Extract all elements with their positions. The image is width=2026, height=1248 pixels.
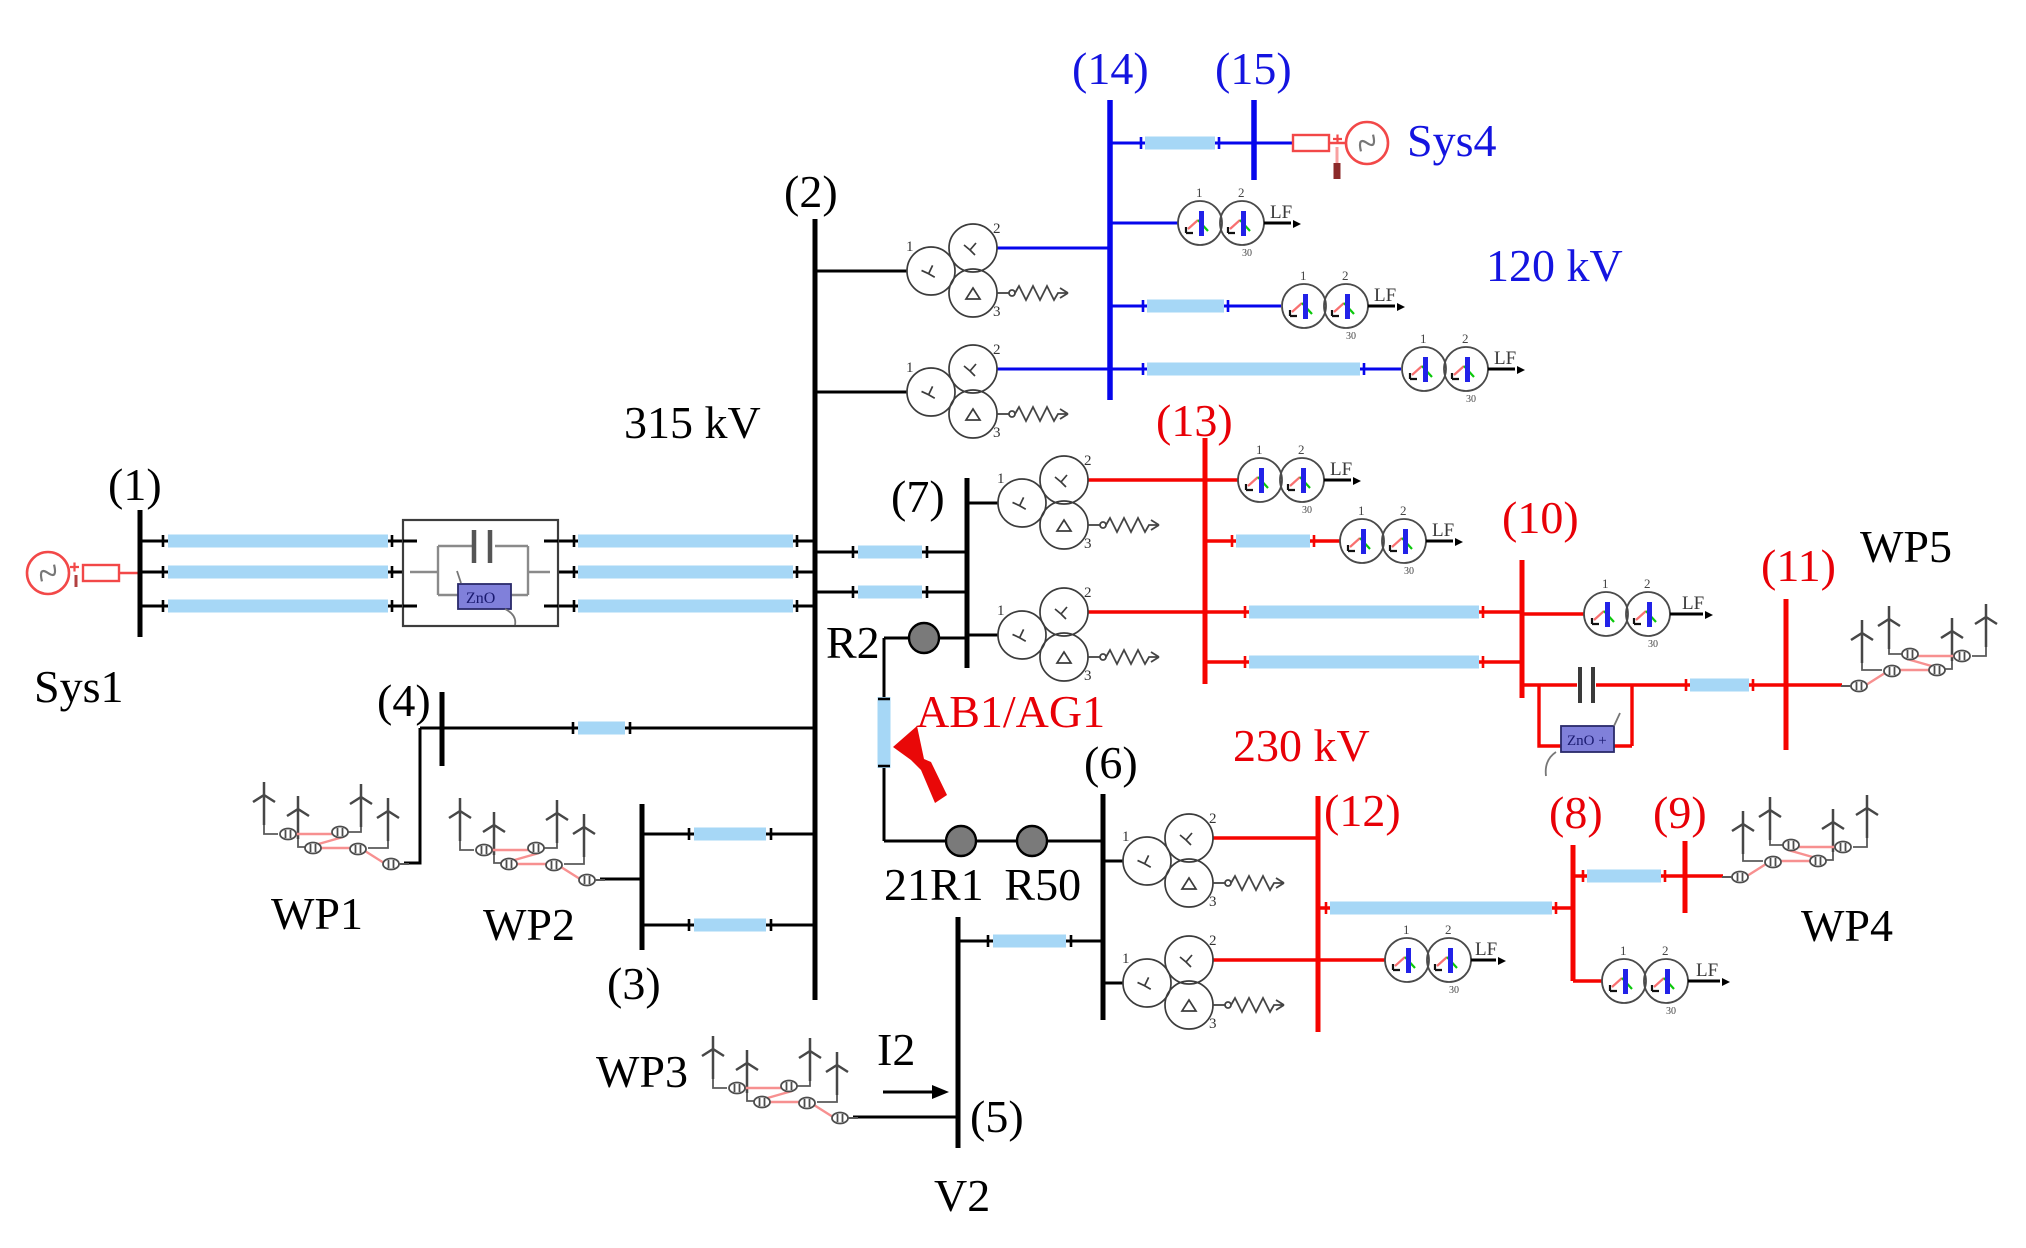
svg-text:(14): (14): [1072, 43, 1149, 94]
series capacitor box SC1 with MOV: [403, 520, 558, 626]
svg-text:AB1/AG1: AB1/AG1: [916, 686, 1105, 737]
wire bus15 to Sys4: [1254, 142, 1293, 145]
wire bus14 to load machine 1: [1110, 222, 1178, 225]
svg-text:(4): (4): [377, 675, 431, 726]
wire bus3 to bus2 (upper): [642, 828, 815, 840]
grounding resistor of T6: [1213, 998, 1284, 1012]
wire WP1 riser to bus4 line: [404, 728, 420, 863]
bus (9): [1683, 841, 1688, 913]
wire bus2 to bus7 (lower): [815, 586, 967, 598]
wire line2b series box to bus2 (phase B): [558, 566, 815, 578]
voltage source Sys4: [1293, 122, 1388, 179]
transformer T2: [906, 342, 1001, 441]
transformer T4: [997, 585, 1092, 684]
fault lightning bolt AB1/AG1: [893, 726, 947, 803]
load machine LF3: [1402, 331, 1525, 405]
svg-text:LF: LF: [1682, 593, 1704, 614]
wind park WP5: [1841, 604, 1997, 692]
bus (1): [138, 510, 143, 637]
breaker R2: [909, 623, 939, 653]
load machine LF5: [1340, 503, 1463, 577]
svg-text:LF: LF: [1432, 520, 1454, 541]
wire bus2 to bus7 (upper): [815, 546, 967, 558]
wire bus11 to WP5: [1786, 683, 1842, 686]
svg-text:(5): (5): [970, 1091, 1024, 1142]
svg-text:(8): (8): [1549, 787, 1603, 838]
transformer T3: [997, 453, 1092, 552]
svg-text:WP1: WP1: [271, 888, 363, 939]
wire bus14 to bus15: [1110, 137, 1254, 149]
transformer T6: [1122, 933, 1217, 1032]
svg-text:(9): (9): [1653, 787, 1707, 838]
svg-text:LF: LF: [1494, 348, 1516, 369]
faulted line segment from R2 down: [878, 638, 890, 841]
wind park WP2: [449, 798, 605, 886]
wire WP2 to bus3: [600, 878, 642, 881]
wire line1b bus1 to series box (phase B): [140, 566, 403, 578]
wind park WP4: [1722, 795, 1878, 883]
svg-text:ZnO +: ZnO +: [1567, 733, 1607, 749]
load machine LF1: [1178, 185, 1301, 259]
svg-text:WP2: WP2: [483, 899, 575, 950]
wire line2c series box to bus2 (phase C): [558, 600, 815, 612]
svg-text:LF: LF: [1270, 202, 1292, 223]
wind park WP1: [253, 782, 409, 870]
grounding resistor of T3: [1088, 518, 1159, 532]
svg-text:LF: LF: [1330, 459, 1352, 480]
svg-text:V2: V2: [934, 1170, 990, 1221]
load machine LF2: [1282, 268, 1405, 342]
transformer bus7-bus13 upper (wires): [967, 480, 1205, 503]
svg-text:(7): (7): [891, 471, 945, 522]
wire bus13 to bus10 (upper): [1205, 606, 1522, 618]
bus (8): [1571, 845, 1576, 981]
wire WP3 to bus5: [853, 1116, 958, 1119]
svg-text:120 kV: 120 kV: [1486, 240, 1623, 291]
grounding resistor of T1: [997, 286, 1068, 300]
wire fault corner to bus6 with breakers: [884, 840, 1103, 843]
svg-text:Sys4: Sys4: [1407, 115, 1496, 166]
breaker 21R1: [946, 826, 976, 856]
wire line1c bus1 to series box (phase C): [140, 600, 403, 612]
transformer bus7-bus13 lower (wires): [967, 612, 1205, 635]
bus (15): [1251, 100, 1257, 180]
wire bus13 to load machine 4: [1205, 478, 1238, 481]
svg-text:(12): (12): [1324, 785, 1401, 836]
svg-text:WP5: WP5: [1860, 521, 1952, 572]
bus (5): [956, 917, 961, 1148]
svg-text:WP4: WP4: [1801, 900, 1893, 951]
transformer T5: [1122, 811, 1217, 910]
svg-text:ZnO: ZnO: [466, 590, 495, 607]
svg-text:Sys1: Sys1: [34, 661, 123, 712]
wire bus9 to WP4: [1685, 874, 1723, 877]
load machine LF6: [1584, 576, 1713, 650]
svg-text:315 kV: 315 kV: [624, 397, 761, 448]
transformer bus6-bus12 upper (wires): [1103, 838, 1318, 861]
bus (13): [1203, 438, 1208, 684]
wire bus8 to bus9: [1573, 870, 1685, 882]
svg-text:(6): (6): [1084, 737, 1138, 788]
series capacitor SC2 with MOV (bus10 to bus11): [1522, 667, 1680, 776]
bus (12): [1316, 796, 1321, 1032]
svg-text:(3): (3): [607, 958, 661, 1009]
svg-text:(15): (15): [1215, 43, 1292, 94]
wire bus12 to bus8: [1318, 902, 1573, 914]
current arrow I2: [883, 1085, 949, 1099]
wire bus14 to load machine 2: [1110, 300, 1281, 312]
bus (4): [440, 692, 445, 766]
wire SC2 to bus11: [1680, 679, 1786, 691]
svg-text:(2): (2): [784, 166, 838, 217]
wire bus3 to bus2 (lower): [642, 919, 815, 931]
load machine LF7: [1385, 922, 1506, 996]
svg-text:WP3: WP3: [596, 1046, 688, 1097]
load machine LF8: [1602, 943, 1730, 1017]
load machine LF4: [1238, 442, 1361, 516]
bus (7): [965, 478, 970, 668]
wire line1a bus1 to series box (phase A): [140, 535, 403, 547]
transformer bus2-bus14 upper (wires): [815, 248, 1110, 271]
wind park WP3: [702, 1036, 858, 1124]
svg-text:21R1 R50: 21R1 R50: [884, 859, 1081, 910]
wire bus14 to load machine 3: [1110, 363, 1401, 375]
grounding resistor of T5: [1213, 876, 1284, 890]
wire bus13 to load machine 5: [1205, 535, 1340, 547]
wire bus4 to bus2: [420, 722, 815, 734]
wire bus8 to load machine 8: [1573, 979, 1602, 982]
grounding resistor of T2: [997, 407, 1068, 421]
wire bus13 to bus10 (lower): [1205, 656, 1522, 668]
svg-text:R2: R2: [826, 617, 880, 668]
svg-text:(11): (11): [1761, 540, 1836, 591]
svg-text:(13): (13): [1156, 395, 1233, 446]
svg-text:I2: I2: [877, 1024, 915, 1075]
transformer bus2-bus14 lower (wires): [815, 369, 1110, 392]
wire bus5 to bus6: [958, 935, 1103, 947]
bus (2): [813, 219, 818, 1000]
grounding resistor of T4: [1088, 650, 1159, 664]
bus (10): [1520, 560, 1525, 698]
wire bus10 to load machine 6: [1522, 612, 1584, 615]
breaker R50: [1017, 826, 1047, 856]
wire bus12 to load machine 7: [1318, 958, 1385, 961]
bus (11): [1784, 599, 1789, 750]
bus (6): [1101, 794, 1106, 1020]
svg-text:230 kV: 230 kV: [1233, 720, 1370, 771]
voltage source Sys1: [27, 552, 138, 594]
svg-text:LF: LF: [1475, 939, 1497, 960]
svg-text:LF: LF: [1374, 285, 1396, 306]
bus (14): [1107, 100, 1113, 400]
svg-text:(10): (10): [1502, 492, 1579, 543]
svg-text:(1): (1): [108, 459, 162, 510]
wire line2a series box to bus2 (phase A): [558, 535, 815, 547]
bus (3): [640, 804, 645, 950]
wire breaker R2 to bus7: [884, 637, 967, 640]
svg-text:LF: LF: [1696, 960, 1718, 981]
transformer T1: [906, 221, 1001, 320]
transformer bus6-bus12 lower (wires): [1103, 960, 1318, 983]
